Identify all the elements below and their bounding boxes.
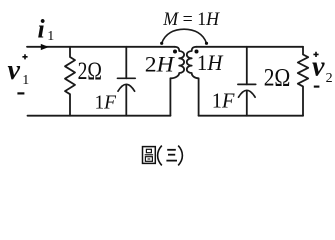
caption paren right — [178, 146, 182, 166]
capacitor C2 top plate — [238, 83, 256, 85]
plus sign v2 — [313, 52, 318, 57]
capacitor C1 top plate — [118, 77, 136, 79]
capacitor C2 curved plate — [239, 90, 256, 97]
caption: CJK drawn as paths — [143, 146, 183, 166]
wire bottom-right rail — [199, 115, 303, 117]
svg-text:2H: 2H — [145, 51, 176, 76]
capacitor C2 1F right: stem top — [246, 47, 248, 85]
capacitor C2 stem bottom — [246, 91, 248, 116]
wire top-right rail — [196, 46, 303, 48]
svg-text:M = 1H: M = 1H — [162, 9, 220, 30]
inductor L2 1H coil — [187, 47, 199, 116]
capacitor C1 stem bottom — [125, 85, 127, 116]
minus sign v2 — [314, 86, 320, 88]
svg-text:1: 1 — [22, 73, 29, 88]
svg-text:1: 1 — [47, 29, 54, 44]
wire top-left rail — [27, 46, 175, 48]
capacitor C1 1F left: stem top — [125, 47, 127, 79]
caption paren left — [158, 146, 162, 166]
inductor L1 2H coil — [170, 47, 184, 116]
dot arc right end — [205, 42, 208, 45]
svg-text:v: v — [312, 51, 325, 82]
resistor R1 2ohm left branch — [65, 47, 75, 116]
svg-text:1H: 1H — [197, 50, 224, 75]
resistor R2 2ohm right branch — [298, 47, 308, 116]
caption glyph TU (figure) outer box — [143, 147, 156, 164]
dot arc left end — [160, 42, 163, 45]
svg-text:i: i — [38, 15, 46, 44]
caption glyph SAN three bars — [167, 149, 176, 151]
svg-text:2Ω: 2Ω — [264, 62, 291, 91]
caption glyph TU bottom box — [145, 157, 152, 162]
svg-text:1F: 1F — [95, 92, 117, 114]
mutual coupling arc M — [162, 29, 207, 43]
plus sign v1 — [22, 54, 27, 59]
svg-text:2Ω: 2Ω — [78, 58, 102, 85]
svg-text:1F: 1F — [212, 89, 235, 113]
dot mark L1 — [173, 50, 177, 54]
svg-text:2: 2 — [326, 71, 333, 86]
svg-text:v: v — [8, 55, 21, 86]
current arrow i1 head — [41, 44, 49, 50]
caption glyph TU bottom inner — [148, 158, 151, 160]
caption glyph TU top small box — [146, 149, 151, 152]
caption glyph TU middle bar — [145, 154, 153, 156]
wire bottom-left rail — [28, 115, 171, 117]
dot mark L2 — [195, 50, 199, 54]
capacitor C1 curved plate — [118, 84, 135, 91]
minus sign v1 — [17, 92, 24, 94]
